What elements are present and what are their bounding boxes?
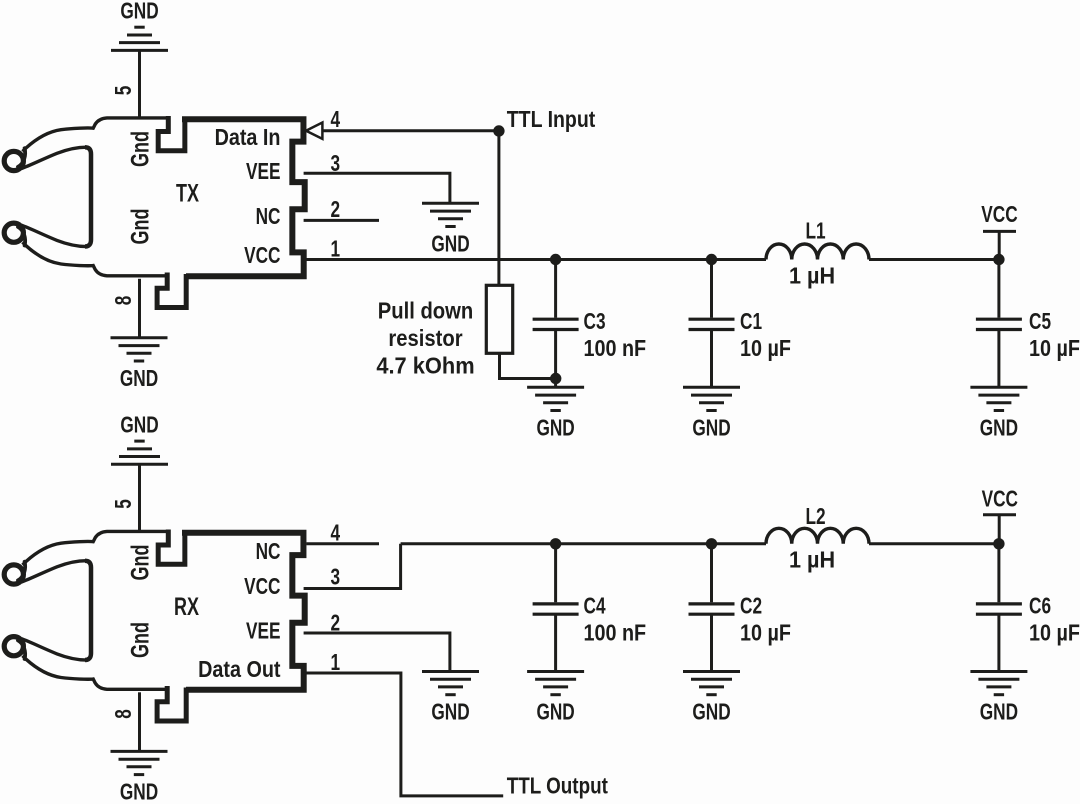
capacitor C4 [533,604,579,614]
svg-text:TTL Input: TTL Input [507,107,596,133]
svg-text:GND: GND [120,413,158,438]
label Pull down resistor 4.7 kOhm [376,297,474,378]
wire rail to C1 [710,260,713,318]
wire RX rail after L2 [869,542,999,545]
svg-text:NC: NC [256,205,281,230]
svg-text:Pull down: Pull down [378,297,474,324]
wire C1 to ground [710,331,713,387]
svg-text:Gnd: Gnd [126,622,155,658]
svg-text:GND: GND [120,780,158,804]
capacitor C5 [976,319,1022,329]
power VCC (RX) [983,513,1016,516]
svg-text:3: 3 [331,565,341,590]
svg-text:GND: GND [980,700,1018,725]
wire rail to C2 [710,544,713,603]
node TTL Input junction [493,125,504,136]
svg-text:TX: TX [176,179,199,208]
svg-text:8: 8 [112,709,137,719]
wire pin8 to ground [138,279,141,338]
capacitor C1 [689,319,735,329]
ground GND (C4) [527,672,584,695]
wire pin3 VCC to rail (RX) [304,544,401,589]
svg-text:GND: GND [980,416,1018,441]
svg-text:VEE: VEE [246,619,280,644]
ground GND (C5) [970,387,1027,410]
svg-text:1 µH: 1 µH [789,263,835,289]
wire VCC stem (RX) [998,515,1001,544]
svg-text:4: 4 [331,108,341,133]
svg-text:10 µF: 10 µF [1029,336,1080,362]
ground GND (RX VEE) [422,672,479,695]
svg-text:10 µF: 10 µF [740,620,791,646]
node resistor/C3 ground junction [550,373,561,384]
svg-text:GND: GND [692,700,730,725]
svg-text:VCC: VCC [982,487,1019,512]
resistor R1 4.7k pull down [486,285,512,353]
svg-text:GND: GND [536,700,574,725]
wire rail to C5 [997,260,1000,318]
wire RX pin8 to ground [138,692,141,751]
svg-text:Gnd: Gnd [126,209,155,245]
ground GND (RX top, pin 5) [111,441,168,464]
svg-text:Data In: Data In [215,125,281,151]
svg-text:GND: GND [692,416,730,441]
node C4 top junction [550,538,561,549]
svg-text:Data Out: Data Out [198,656,280,682]
svg-text:8: 8 [112,296,137,306]
node VCC/C6 junction [993,538,1004,549]
ground GND (TX pin 8) [111,338,168,361]
svg-text:4.7 kOhm: 4.7 kOhm [376,353,474,379]
capacitor C6 [976,604,1022,614]
wire resistor bottom to C3 ground [500,353,556,378]
svg-text:GND: GND [431,232,469,257]
ground GND (top, pin 5) [111,27,168,50]
input arrowhead on pin 4 [306,123,322,139]
svg-text:NC: NC [256,540,281,565]
inductor L1 coil [766,244,869,260]
svg-text:10 µF: 10 µF [1029,620,1080,646]
wire rail to C3 [554,260,557,318]
wire C2 to ground [710,616,713,672]
svg-text:GND: GND [120,367,158,392]
node C1 top junction [706,254,717,265]
wire C5 to ground [997,331,1000,387]
svg-text:C6: C6 [1029,594,1051,619]
svg-text:5: 5 [112,499,137,509]
wire C6 to ground [997,616,1000,672]
ground GND (C3) [527,387,584,410]
node C3 top junction [550,254,561,265]
wire C3 to ground [554,331,557,387]
svg-text:100 nF: 100 nF [584,336,647,362]
svg-text:1 µH: 1 µH [789,547,835,573]
svg-text:VCC: VCC [981,203,1018,228]
svg-text:resistor: resistor [388,325,463,352]
svg-text:10 µF: 10 µF [740,336,791,362]
wire TX VCC rail [304,258,766,261]
svg-text:VCC: VCC [244,575,281,600]
wire pin2 VEE to ground (RX) [304,633,450,672]
svg-text:GND: GND [431,700,469,725]
svg-text:C1: C1 [740,310,762,335]
RX fiber-optic module U2 outline with connector claw [4,530,305,722]
ground GND (TX VEE) [422,203,479,226]
ground GND (C6) [970,672,1027,695]
svg-text:100 nF: 100 nF [584,620,647,646]
wire pin1 Data Out to TTL Output [304,673,504,796]
svg-text:VCC: VCC [244,244,281,269]
wire pin4 NC stub (RX) [307,542,380,545]
wire RX pin5 to ground [138,464,141,530]
svg-text:C3: C3 [584,310,606,335]
wire RX VCC rail [401,542,766,545]
svg-text:C4: C4 [584,594,607,619]
wire pin3 VEE to ground [304,173,450,203]
ground GND (C1) [683,387,740,410]
svg-text:VEE: VEE [246,160,280,185]
wire TTL input down to resistor [497,131,500,285]
inductor L2 coil [766,528,869,544]
power VCC (TX) [983,230,1016,233]
wire pin4 to TTL Input [322,129,499,132]
capacitor C3 [533,319,579,329]
wire rail to C4 [554,544,557,603]
TX fiber-optic module U1 outline with connector claw [4,116,305,308]
ground GND (C2) [683,672,740,695]
svg-text:RX: RX [174,592,199,621]
svg-text:TTL Output: TTL Output [507,774,608,799]
svg-text:Gnd: Gnd [126,545,155,581]
svg-text:5: 5 [112,86,137,96]
node VCC/C5 junction [993,254,1004,265]
wire C4 to ground [554,616,557,672]
svg-text:C5: C5 [1029,310,1051,335]
wire VCC stem [998,231,1001,259]
node C2 top junction [706,538,717,549]
svg-text:GND: GND [536,416,574,441]
svg-text:L2: L2 [806,505,826,530]
svg-text:4: 4 [331,521,341,546]
svg-text:C2: C2 [740,594,762,619]
wire pin2 NC stub [304,219,379,222]
wire TX rail after L1 [869,258,999,261]
svg-text:L1: L1 [806,219,826,244]
wire rail to C6 [997,544,1000,603]
wire pin5 to ground [138,50,141,116]
svg-text:Gnd: Gnd [126,131,155,167]
svg-text:GND: GND [120,0,158,24]
ground GND (RX pin 8) [111,751,168,774]
capacitor C2 [689,604,735,614]
